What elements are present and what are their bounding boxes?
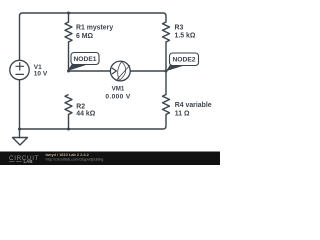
svg-text:10 V: 10 V [34, 71, 48, 78]
node NODE1 flag [67, 53, 99, 72]
junction dot ground [18, 128, 21, 131]
wire voltmeter to NODE2 [130, 70, 166, 72]
footer bar [0, 152, 220, 166]
svg-text:R2: R2 [76, 104, 85, 111]
label R1 mystery 6 MΩ [76, 24, 113, 40]
svg-text:LAB: LAB [24, 159, 33, 164]
svg-text:NODE2: NODE2 [172, 57, 195, 64]
wire R2 bottom lead [68, 115, 70, 130]
label R3 1.5 kΩ [175, 24, 196, 39]
junction dot NODE2 [165, 70, 168, 73]
svg-text:VM1: VM1 [112, 86, 125, 93]
wire R4 top lead [165, 71, 167, 95]
node NODE2 flag [166, 53, 199, 71]
label VM1 0.000 V [105, 86, 130, 101]
wire R3 bottom lead to NODE2 [165, 42, 167, 71]
resistor R1 [65, 22, 72, 42]
svg-text:1.5 kΩ: 1.5 kΩ [175, 33, 196, 40]
svg-text:0.000 V: 0.000 V [105, 93, 130, 100]
svg-text:http://circuitlab.com/c6qpw5jx: http://circuitlab.com/c6qpw5jx36kg [46, 157, 104, 161]
wire R4 bottom lead and bottom rail [20, 115, 167, 130]
junction dot top (R1/top rail) [67, 12, 70, 15]
wire ground stub [19, 129, 21, 138]
voltmeter VM1 [110, 61, 130, 81]
svg-text:NODE1: NODE1 [73, 56, 96, 63]
label R4 variable 11 Ω [175, 102, 212, 118]
svg-text:6 MΩ: 6 MΩ [76, 33, 93, 40]
resistor R3 [163, 22, 170, 42]
svg-text:tanyd / 1810 Lab 2 2.3.2: tanyd / 1810 Lab 2 2.3.2 [46, 152, 90, 157]
svg-text:R3: R3 [175, 24, 184, 31]
wire NODE1 to voltmeter [69, 70, 111, 72]
footer CircuitLab logo [9, 155, 39, 164]
resistor R4 variable [163, 95, 170, 115]
voltage source V1 [10, 60, 29, 79]
svg-text:R1 mystery: R1 mystery [76, 24, 113, 31]
svg-text:44 kΩ: 44 kΩ [76, 111, 95, 118]
label R2 44 kΩ [76, 104, 95, 118]
label V1 value [34, 64, 48, 78]
svg-text:11 Ω: 11 Ω [175, 110, 190, 117]
junction dot NODE1 [67, 70, 70, 73]
svg-text:R4 variable: R4 variable [175, 102, 212, 109]
wire R1 bottom lead to NODE1 [68, 42, 70, 71]
wire V1 minus to bottom rail [19, 80, 21, 129]
junction dot R2/bottom rail [67, 128, 70, 131]
resistor R2 [65, 95, 72, 115]
wire R1 top lead [68, 13, 70, 22]
wire top rail (V1+ up, across top, down to R3) [20, 13, 167, 60]
ground [13, 138, 28, 146]
